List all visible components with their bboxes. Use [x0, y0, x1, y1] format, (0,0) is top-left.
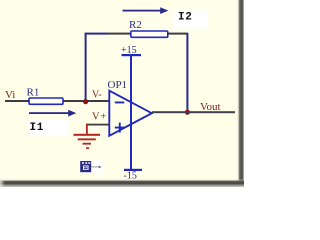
- wire V+ to ground: [86, 124, 110, 126]
- resistor R1: [29, 98, 63, 104]
- shadow bottom: [0, 179, 244, 187]
- minus pin mark: [115, 102, 125, 104]
- ground: [74, 134, 101, 136]
- wire Vi input to R1: [5, 100, 29, 102]
- wire output: [152, 111, 235, 113]
- svg-text:R1: R1: [27, 87, 40, 99]
- OLE object icon (floppy): [80, 160, 104, 173]
- arrow I2: [123, 10, 163, 12]
- wire vertical feedback left: [85, 33, 87, 102]
- resistor R2: [131, 31, 168, 37]
- wire feedback top right segment: [168, 33, 188, 35]
- wire feedback top mid segment: [108, 33, 131, 35]
- label I1 (white box): [29, 119, 69, 136]
- svg-text:V+: V+: [92, 111, 107, 122]
- svg-text:I1: I1: [30, 122, 44, 134]
- svg-text:OP1: OP1: [108, 79, 128, 91]
- svg-text:V-: V-: [92, 89, 102, 100]
- ground stem: [86, 124, 88, 135]
- power -15 supply: [124, 169, 142, 171]
- op-amp OP1 triangle: [109, 91, 152, 136]
- svg-text:Vout: Vout: [200, 101, 221, 113]
- label I2 (white box): [174, 9, 209, 30]
- wire feedback top left segment: [85, 33, 109, 35]
- wire vertical feedback right: [186, 33, 188, 112]
- svg-text:Vi: Vi: [5, 89, 15, 101]
- svg-text:I2: I2: [178, 12, 192, 24]
- supply rail vertical through op-amp: [130, 56, 132, 169]
- node A (V- junction dot): [83, 99, 88, 104]
- plus pin mark: [115, 127, 125, 129]
- svg-text:R2: R2: [129, 19, 142, 31]
- node B (output junction dot): [185, 110, 190, 115]
- shadow right: [237, 0, 244, 187]
- arrow I1: [29, 112, 70, 114]
- wire R1 to node to op-amp V-: [62, 100, 110, 102]
